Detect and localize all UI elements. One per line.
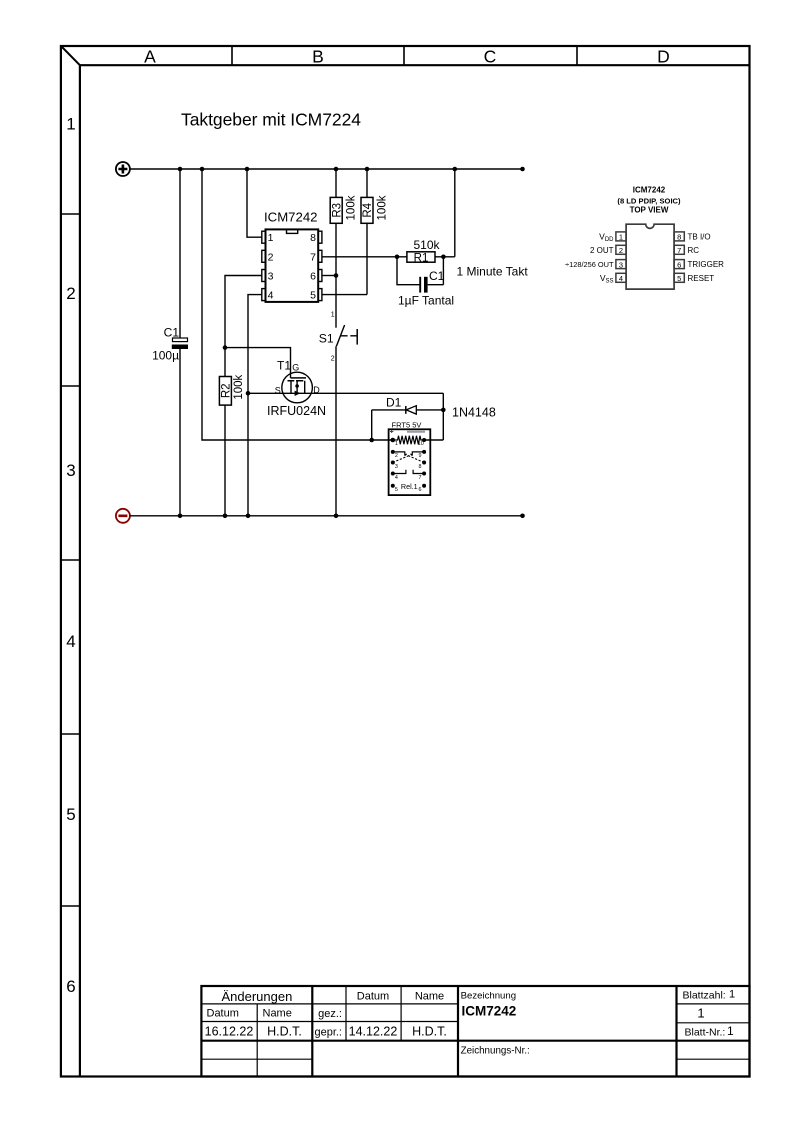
svg-text:IRFU024N: IRFU024N <box>267 404 326 418</box>
title block label Name <box>263 1008 292 1020</box>
title block col header Name <box>415 991 444 1003</box>
pin 6 stub <box>310 270 322 283</box>
title block Blattzahl small 1 <box>729 989 735 1001</box>
svg-text:2: 2 <box>331 355 335 362</box>
title block Blattzahl label <box>683 990 726 1002</box>
pin 2 stub <box>262 250 274 263</box>
svg-text:1: 1 <box>619 233 623 242</box>
svg-text:2: 2 <box>395 453 398 459</box>
pinout IC body <box>626 224 674 289</box>
svg-text:C1: C1 <box>164 326 180 340</box>
pinout pin 6 <box>674 260 724 270</box>
frame column labels <box>144 46 670 66</box>
svg-text:Taktgeber mit ICM7224: Taktgeber mit ICM7224 <box>181 110 361 130</box>
svg-text:1: 1 <box>66 114 75 133</box>
svg-text:Bezeichnung: Bezeichnung <box>461 991 516 1002</box>
resistor R1 <box>407 238 441 264</box>
wire drain line <box>312 393 443 440</box>
svg-text:Blatt-Nr.:: Blatt-Nr.: <box>685 1026 726 1038</box>
wire pin3 branch <box>225 276 262 377</box>
title block date 14.12.22 <box>349 1025 398 1039</box>
node D1 right junction <box>441 408 446 413</box>
wire gate branch <box>225 348 291 378</box>
svg-text:R2: R2 <box>221 383 233 398</box>
svg-text:1N4148: 1N4148 <box>452 406 496 420</box>
relay pin labels <box>395 441 424 493</box>
svg-text:8: 8 <box>677 233 681 242</box>
svg-text:ICM7242: ICM7242 <box>462 1004 517 1019</box>
svg-text:1: 1 <box>727 1024 734 1038</box>
pin 7 stub <box>310 250 322 263</box>
drawing frame inner border <box>80 65 749 1076</box>
svg-text:6: 6 <box>677 260 681 269</box>
svg-text:A: A <box>144 46 156 66</box>
svg-text:H.D.T.: H.D.T. <box>412 1025 447 1039</box>
node R1 right junction <box>441 254 446 259</box>
resistor R3 <box>330 169 358 276</box>
svg-text:6: 6 <box>419 487 422 493</box>
svg-text:6: 6 <box>310 271 316 283</box>
node pin6 junction <box>334 273 339 278</box>
svg-text:6: 6 <box>66 977 75 996</box>
svg-text:Datum: Datum <box>357 991 389 1003</box>
svg-text:G: G <box>292 363 299 373</box>
wire top supply rail <box>130 168 523 170</box>
svg-text:1 Minute Takt: 1 Minute Takt <box>457 264 529 278</box>
svg-text:Name: Name <box>415 991 444 1003</box>
wire source line <box>248 392 312 394</box>
svg-text:100µ: 100µ <box>152 349 179 363</box>
frame column separators <box>232 46 577 65</box>
pin 1 stub <box>262 231 274 244</box>
capacitor C1 electrolytic <box>152 169 188 516</box>
svg-text:14.12.22: 14.12.22 <box>349 1025 398 1039</box>
svg-text:2: 2 <box>268 251 274 263</box>
svg-text:1: 1 <box>697 1006 704 1021</box>
title block HDT 1 <box>267 1025 302 1039</box>
svg-text:R4: R4 <box>362 202 374 217</box>
svg-text:1: 1 <box>268 232 274 244</box>
svg-text:5: 5 <box>677 274 681 283</box>
svg-text:5: 5 <box>66 805 75 824</box>
svg-text:Name: Name <box>263 1008 292 1020</box>
svg-text:510k: 510k <box>413 238 440 252</box>
pinout pin 5 <box>674 273 714 283</box>
wire pin5 to R4 <box>322 294 367 296</box>
svg-text:Blattzahl:: Blattzahl: <box>683 990 726 1002</box>
title block gepr <box>314 1027 342 1039</box>
svg-text:TB I/O: TB I/O <box>688 233 711 242</box>
title block Blatt-Nr value 1 <box>727 1024 734 1038</box>
node source tap <box>246 391 251 396</box>
node top rail junctions <box>178 167 525 172</box>
svg-text:B: B <box>312 46 324 66</box>
pinout pin 8 <box>674 232 711 242</box>
svg-text:D1: D1 <box>386 395 402 409</box>
relay contact set B <box>393 470 424 474</box>
svg-text:3: 3 <box>268 271 274 283</box>
switch S1 <box>319 311 357 362</box>
svg-text:10: 10 <box>418 441 424 447</box>
svg-text:16.12.22: 16.12.22 <box>205 1025 254 1039</box>
pin 3 stub <box>262 270 274 283</box>
wire pin4 branch <box>248 295 262 516</box>
svg-text:100k: 100k <box>346 195 358 220</box>
svg-text:9: 9 <box>419 453 422 459</box>
svg-text:Zeichnungs-Nr.:: Zeichnungs-Nr.: <box>461 1046 530 1057</box>
svg-text:7: 7 <box>419 475 422 481</box>
svg-text:7: 7 <box>310 251 316 263</box>
wire bottom ground rail <box>130 515 523 517</box>
title block Blatt-Nr label <box>685 1026 726 1038</box>
resistor R2 <box>219 374 245 405</box>
wire relay supply branch <box>202 169 393 440</box>
svg-text:1: 1 <box>395 441 398 447</box>
wire S1 to ground rail <box>335 346 337 516</box>
svg-text:gez.:: gez.: <box>318 1008 342 1020</box>
svg-text:4: 4 <box>268 290 274 302</box>
svg-text:(8 LD PDIP, SOIC): (8 LD PDIP, SOIC) <box>617 196 681 205</box>
svg-text:R1: R1 <box>414 252 429 264</box>
frame row separators <box>61 214 80 906</box>
svg-text:C1: C1 <box>429 269 445 283</box>
svg-text:1: 1 <box>331 311 335 318</box>
wire R3 to S1 <box>335 276 337 328</box>
svg-text:S1: S1 <box>319 332 334 346</box>
node gate tap <box>223 345 228 350</box>
relay name label <box>401 482 418 491</box>
title block Bezeichnung value ICM7242 <box>462 1004 517 1019</box>
svg-text:4: 4 <box>395 475 398 481</box>
pinout diagram ICM7242 <box>617 186 681 215</box>
svg-text:4: 4 <box>619 274 623 283</box>
title block Aenderungen header <box>221 989 292 1004</box>
relay coil <box>393 436 423 445</box>
svg-text:5: 5 <box>310 290 316 302</box>
wire coil right branch <box>424 439 443 441</box>
plus supply terminal <box>116 162 130 176</box>
svg-text:gepr.:: gepr.: <box>314 1027 342 1039</box>
svg-text:C: C <box>484 46 497 66</box>
label 1 Minute Takt <box>457 264 529 278</box>
svg-text:÷128/256 OUT: ÷128/256 OUT <box>565 260 614 269</box>
capacitor C1 tantal <box>397 257 454 308</box>
svg-text:5: 5 <box>395 487 398 493</box>
pin 4 stub <box>262 289 274 302</box>
relay contact set A <box>393 452 424 463</box>
svg-text:ICM7242: ICM7242 <box>264 210 318 225</box>
wire pin6 to R3 <box>322 275 336 277</box>
pinout pin 3 <box>565 260 626 270</box>
resistor R4 <box>361 169 388 295</box>
title block label Datum <box>207 1008 239 1020</box>
title block Bezeichnung label <box>461 991 516 1002</box>
diode D1 1N4148 <box>372 395 496 440</box>
wire pin7 to R1 <box>322 256 407 258</box>
wire R2 to ground rail <box>224 405 226 516</box>
svg-text:8: 8 <box>310 232 316 244</box>
frame corner diagonal <box>62 47 80 66</box>
svg-text:2: 2 <box>66 284 75 303</box>
wire R1 right to rail <box>435 169 455 257</box>
title block table <box>201 986 749 1077</box>
svg-text:4: 4 <box>66 632 75 651</box>
transistor T1 IRFU024N MOSFET <box>267 358 326 418</box>
node relay pin1 junction <box>391 438 396 443</box>
svg-text:TOP VIEW: TOP VIEW <box>630 205 669 214</box>
svg-text:Datum: Datum <box>207 1008 239 1020</box>
svg-text:8: 8 <box>419 464 422 470</box>
svg-text:TRIGGER: TRIGGER <box>688 260 725 269</box>
wire pin1 branch <box>247 169 262 237</box>
relay pin dots <box>391 438 426 488</box>
title block col header Datum <box>357 991 389 1003</box>
title block HDT 2 <box>412 1025 447 1039</box>
pin 5 stub <box>310 289 322 302</box>
title block gez <box>318 1008 342 1020</box>
svg-text:H.D.T.: H.D.T. <box>267 1025 302 1039</box>
svg-text:1: 1 <box>729 989 735 1001</box>
svg-text:2 OUT: 2 OUT <box>590 246 614 255</box>
pin 8 stub <box>310 231 322 244</box>
pinout pin 7 <box>674 245 699 255</box>
svg-text:RESET: RESET <box>688 274 715 283</box>
drawing frame outer border <box>61 46 750 1077</box>
svg-text:Änderungen: Änderungen <box>221 989 292 1004</box>
svg-text:7: 7 <box>677 246 681 255</box>
title block Zeichnungs-Nr label <box>461 1046 530 1057</box>
svg-text:D: D <box>657 46 670 66</box>
svg-text:Rel.1: Rel.1 <box>401 482 418 491</box>
pinout pin 1 <box>599 232 626 244</box>
IC U1 ICM7242 <box>264 210 318 302</box>
svg-text:100k: 100k <box>233 374 245 399</box>
svg-text:3: 3 <box>619 260 623 269</box>
svg-text:1µF Tantal: 1µF Tantal <box>398 293 454 307</box>
svg-text:T1: T1 <box>277 358 291 372</box>
frame row labels <box>66 114 75 996</box>
svg-text:2: 2 <box>619 246 623 255</box>
minus supply terminal <box>116 509 130 523</box>
schematic title <box>181 110 361 130</box>
svg-text:3: 3 <box>395 464 398 470</box>
svg-text:RC: RC <box>688 246 700 255</box>
pinout pin 2 <box>590 245 626 255</box>
svg-text:R3: R3 <box>331 203 343 218</box>
svg-text:ICM7242: ICM7242 <box>633 186 666 195</box>
relay Rel.1 FRT5 5V <box>389 421 431 495</box>
node bottom rail junctions <box>178 514 525 519</box>
svg-text:FRT5 5V: FRT5 5V <box>392 421 422 430</box>
title block Blattzahl value 1 <box>697 1006 704 1021</box>
node D1 left junction <box>369 438 374 443</box>
node R1 left junction <box>395 254 400 259</box>
pinout pin 4 <box>600 273 626 285</box>
title block date 16.12.22 <box>205 1025 254 1039</box>
svg-text:3: 3 <box>66 461 75 480</box>
svg-text:100k: 100k <box>376 195 388 220</box>
